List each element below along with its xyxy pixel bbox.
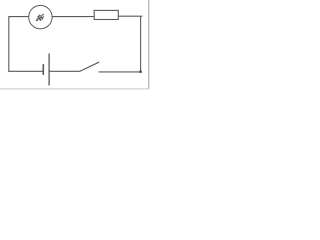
- battery B1 short plate (-): [42, 64, 44, 75]
- fan M1 blade tail stroke: [41, 14, 43, 16]
- wire right vertical: [140, 16, 142, 72]
- node bottom-right junction: [139, 71, 141, 73]
- wire circle to resistor: [52, 16, 94, 18]
- wire switch contact to bottom-right corner: [99, 71, 142, 73]
- wire top-left segment: [9, 16, 29, 18]
- wire battery to switch pivot: [49, 70, 80, 72]
- wire resistor to top-right corner: [118, 15, 142, 17]
- battery B1 long plate (+): [48, 53, 50, 85]
- wire bottom-left segment: [8, 70, 42, 72]
- resistor R1 box: [94, 10, 118, 19]
- wire left vertical: [8, 16, 10, 72]
- fan M1 blade symbol underlay: [36, 15, 43, 21]
- frame bottom border: [0, 88, 149, 90]
- fan M1 circle: [29, 5, 52, 28]
- fan M1 blade symbol: [36, 15, 44, 21]
- switch S1 lever: [79, 62, 99, 71]
- frame right border: [148, 0, 150, 89]
